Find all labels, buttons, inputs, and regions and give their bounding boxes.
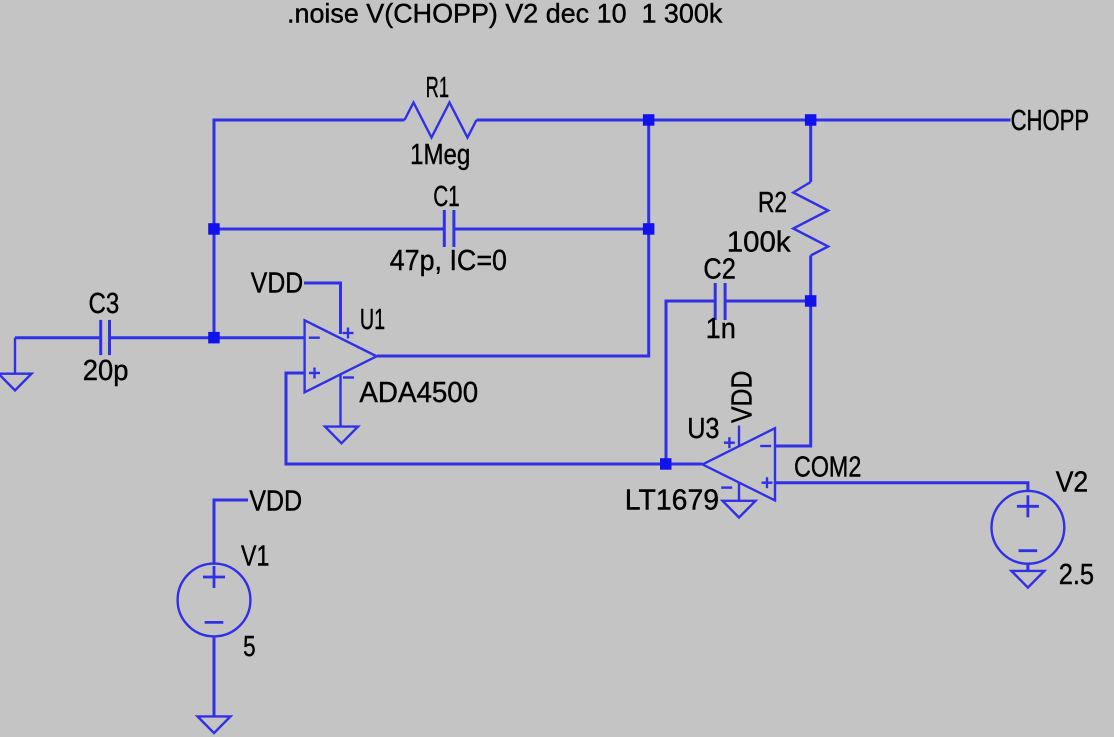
wire C2 left vertical + row <box>666 301 715 464</box>
wire VDD stub to V1 <box>214 500 248 564</box>
wire R2 top lead <box>809 120 812 182</box>
voltage source V1 <box>178 564 251 637</box>
wire V1 bottom lead <box>213 636 216 716</box>
svg-text:V2: V2 <box>1056 466 1089 498</box>
svg-text:VDD: VDD <box>251 267 303 299</box>
svg-text:CHOPP: CHOPP <box>1011 105 1090 137</box>
svg-text:LT1679: LT1679 <box>625 484 719 516</box>
wire input row left <box>15 336 101 339</box>
wire C2 right <box>725 300 811 303</box>
svg-text:1Meg: 1Meg <box>410 139 470 171</box>
ground at C3 <box>0 338 32 391</box>
wire top right to CHOPP <box>477 119 1011 122</box>
wire input row right <box>110 336 305 339</box>
svg-text:.noise V(CHOPP) V2 dec 10 1 3: .noise V(CHOPP) V2 dec 10 1 300k <box>287 0 723 28</box>
capacitor C3 <box>101 320 110 355</box>
svg-text:5: 5 <box>243 631 256 663</box>
ground at U3 <box>723 501 756 518</box>
wire top-left horizontal + left vertical <box>214 120 405 338</box>
svg-text:C2: C2 <box>703 253 735 285</box>
wire U1 + input loop to U3 output <box>286 373 703 464</box>
op-amp U3 <box>703 426 776 501</box>
junction at R1/C1/output node <box>643 114 655 126</box>
svg-text:47p, IC=0: 47p, IC=0 <box>390 245 507 277</box>
svg-text:R2: R2 <box>758 187 787 219</box>
svg-text:20p: 20p <box>83 355 129 387</box>
svg-text:ADA4500: ADA4500 <box>359 377 478 409</box>
junction at R2/C2 node <box>805 295 817 307</box>
wire R2 bottom lead <box>809 256 812 302</box>
svg-text:COM2: COM2 <box>794 451 861 483</box>
wire U3 V- lead <box>738 483 740 501</box>
capacitor C1 <box>444 210 454 247</box>
wire V2 bottom lead <box>1026 564 1029 571</box>
svg-text:U3: U3 <box>687 413 719 445</box>
svg-text:U1: U1 <box>360 304 385 336</box>
capacitor C2 <box>715 283 725 320</box>
resistor R2 <box>793 182 828 256</box>
svg-text:V1: V1 <box>241 540 269 572</box>
junction at U1 inverting input <box>208 332 220 344</box>
junction at U3 output <box>660 458 672 470</box>
resistor R1 <box>405 103 477 138</box>
wire U1 output up to top <box>377 120 649 356</box>
ground at V1 <box>198 716 231 733</box>
wire VDD stub to U1 V+ <box>304 283 341 334</box>
svg-text:VDD: VDD <box>249 485 302 517</box>
svg-text:R1: R1 <box>426 72 449 104</box>
ground at V2 <box>1011 571 1044 588</box>
junction at R2 top <box>805 114 817 126</box>
wire U3 inverting input to R2/C2 node <box>775 301 811 446</box>
svg-text:2.5: 2.5 <box>1059 559 1094 591</box>
wire C1 row left <box>214 228 445 231</box>
junction at C1 right <box>643 223 655 235</box>
junction at C1 left <box>208 223 220 235</box>
svg-text:VDD: VDD <box>727 371 759 423</box>
wire C1 row right <box>454 228 649 231</box>
wire COM2 from U3 + input to V2 <box>775 483 1028 491</box>
op-amp U1 <box>305 320 377 392</box>
wire U1 V- lead <box>339 374 341 427</box>
svg-text:C1: C1 <box>433 181 460 213</box>
svg-text:100k: 100k <box>727 227 791 259</box>
voltage source V2 <box>992 491 1065 564</box>
svg-text:C3: C3 <box>89 288 120 320</box>
ground at U1 <box>325 427 358 444</box>
svg-text:1n: 1n <box>706 313 736 345</box>
